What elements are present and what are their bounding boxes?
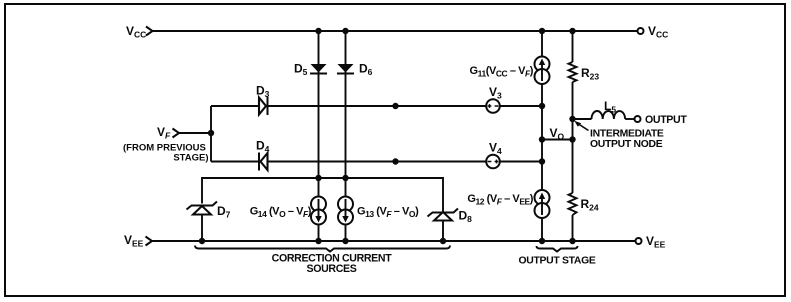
node dot rail R23 [569,28,575,34]
node VF junction [208,130,214,136]
wire D4 row [211,161,486,163]
label CORRECTION CURRENT SOURCES with brace [195,246,450,276]
label (FROM PREVIOUS STAGE) [123,143,209,164]
node VF input terminal [157,125,179,141]
zener diode D7 [187,202,231,220]
inductor L5 [592,99,626,119]
node dot rail G11 [539,28,545,34]
node dot G12 bottom [539,238,545,244]
svg-text:STAGE): STAGE) [173,153,208,164]
node dot rail D5 [315,28,321,34]
node dot VO left [539,136,545,142]
wire VO connector [542,139,573,141]
node dot bus G14 [315,175,321,181]
node dot bus G13 [342,175,348,181]
wire G11 branch vertical [541,31,543,241]
node dot G13 bottom [342,238,348,244]
wire correction top bus [202,178,443,241]
current source G14 [250,197,326,225]
node dot on D4 row [392,158,398,164]
wire VF lead [179,132,211,134]
wire R23 branch [572,31,574,241]
node dot V4 junction [539,158,545,164]
node dot intermediate output [569,116,575,122]
current source G13 [338,197,419,225]
zener diode D8 [428,209,473,225]
diode D6 [337,62,373,78]
diode D3 [256,84,270,116]
current source G11 [470,57,550,85]
diode D5 [294,62,327,78]
resistor R24 [569,193,599,215]
node dot D8 bottom [440,238,446,244]
wire D6 vertical [345,31,347,241]
wire VF vertical split [210,106,212,162]
source V3 [486,85,502,113]
resistor R23 [569,62,600,82]
current source G12 [467,190,549,218]
source V4 [486,141,502,169]
svg-text:OUTPUT: OUTPUT [645,114,687,126]
label OUTPUT STAGE with brace [518,246,595,267]
diode D4 [256,139,270,171]
wire top VCC rail [153,30,638,32]
node dot R24 bottom [569,238,575,244]
wire D5 vertical [318,31,320,241]
wire D3 row [211,105,486,107]
node dot V3 junction [539,103,545,109]
node dot D7 bottom [199,238,205,244]
wire VEE rail [152,240,636,242]
node dot on D3 row [392,103,398,109]
node dot G14 bottom [315,238,321,244]
node OUTPUT terminal [635,114,688,126]
node dot rail D6 [342,28,348,34]
label INTERMEDIATE OUTPUT NODE with arrow [574,121,664,150]
node dot VO right [569,136,575,142]
svg-text:SOURCES: SOURCES [307,263,357,275]
svg-text:OUTPUT STAGE: OUTPUT STAGE [518,256,595,267]
node VEE left terminal [124,233,152,249]
node VEE right terminal [636,234,666,250]
svg-text:INTERMEDIATE: INTERMEDIATE [590,129,664,140]
wire V4 to node [500,161,542,163]
node VCC right terminal [638,24,669,40]
svg-text:OUTPUT NODE: OUTPUT NODE [590,139,663,150]
node VCC left terminal [126,24,153,40]
wire L5 lead [573,118,592,120]
wire L5 to output [625,118,634,120]
wire V3 to node [500,105,542,107]
